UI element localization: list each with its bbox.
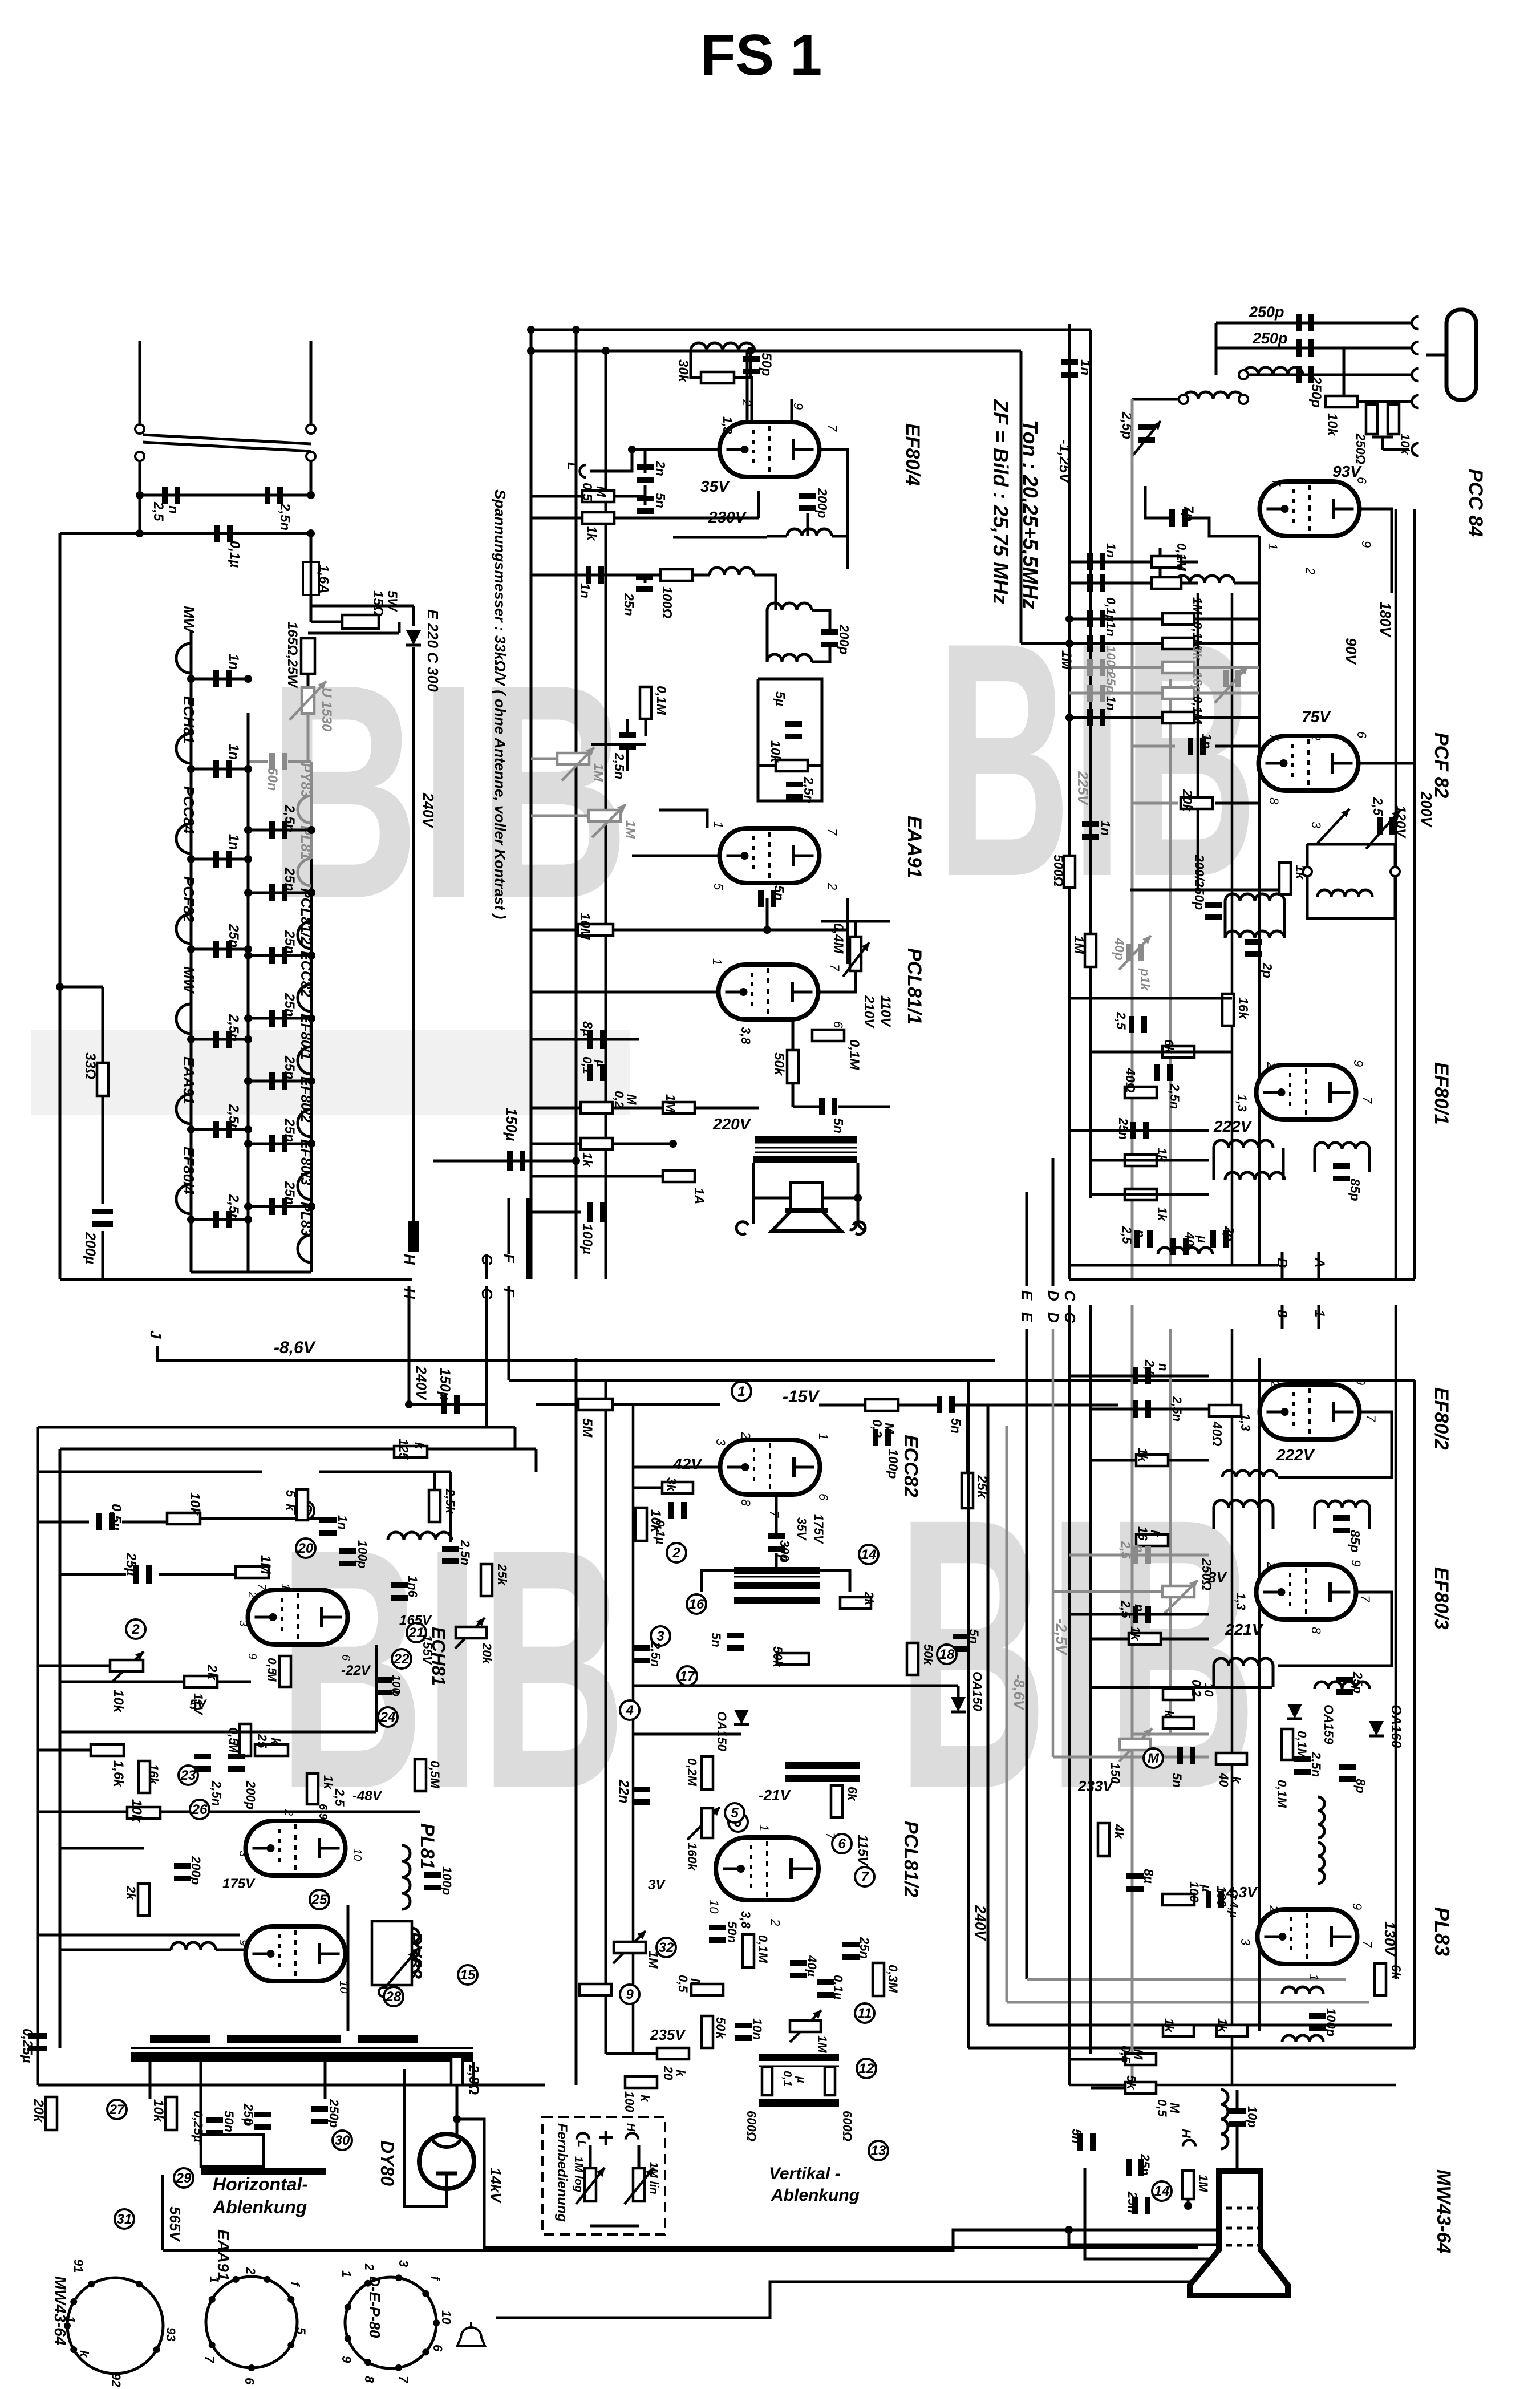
svg-text:250p: 250p <box>327 2099 341 2128</box>
wire <box>898 1404 941 1407</box>
svg-text:7: 7 <box>1360 1096 1375 1104</box>
wire <box>1130 889 1278 892</box>
capacitor ladder <box>1087 635 1093 652</box>
wire <box>531 929 578 932</box>
wire <box>1236 2090 1239 2111</box>
capacitor 8p <box>1339 1764 1356 1770</box>
svg-text:2,5n: 2,5n <box>277 503 293 531</box>
wire <box>591 743 646 746</box>
svg-text:-48V: -48V <box>352 1788 383 1804</box>
svg-text:M: M <box>265 1671 278 1682</box>
socket D-E-P-80 <box>345 2277 436 2368</box>
wire <box>1091 1686 1272 1689</box>
wire 1 lower <box>1318 1305 1320 1329</box>
capacitor 200/250p <box>1205 902 1222 908</box>
node 1 <box>732 1382 751 1401</box>
wire <box>531 495 582 498</box>
svg-text:25n: 25n <box>282 1055 297 1079</box>
svg-text:175V: 175V <box>222 1876 256 1892</box>
svg-text:-8,6V: -8,6V <box>274 1338 317 1357</box>
tube PCF82 <box>1259 736 1359 791</box>
pot arrow 0,4M <box>843 942 869 977</box>
svg-text:6: 6 <box>431 2345 445 2352</box>
node osc 2 <box>1391 867 1400 876</box>
wire <box>200 2062 202 2145</box>
trimmer arrow osc 2 <box>1318 809 1349 843</box>
capacitor 1n <box>1188 738 1193 755</box>
wire heater rail 2 <box>310 859 313 1272</box>
resistor 2k <box>840 1597 871 1609</box>
wire <box>60 1949 171 1951</box>
wire <box>102 987 104 1204</box>
junction <box>572 1157 580 1165</box>
svg-text:ECC82: ECC82 <box>900 1435 922 1497</box>
svg-text:25n: 25n <box>622 593 637 616</box>
svg-text:2,5: 2,5 <box>151 501 166 521</box>
svg-text:1n: 1n <box>226 744 241 760</box>
resistor 5M <box>578 1399 613 1410</box>
wire F upper stub <box>508 1198 510 1254</box>
svg-text:2: 2 <box>282 1809 295 1816</box>
wire plate feed <box>846 513 849 569</box>
resistor 1k <box>1125 1189 1157 1200</box>
wire <box>60 1847 144 1850</box>
wire <box>613 1403 720 1406</box>
svg-text:DY80: DY80 <box>377 2140 398 2186</box>
wire <box>38 1811 420 1813</box>
wire <box>398 622 401 633</box>
diode OA150 <box>734 1710 749 1724</box>
svg-text:0,1µ: 0,1µ <box>1104 597 1118 622</box>
wire <box>191 858 248 861</box>
socket EAA91 <box>206 2277 297 2368</box>
wire <box>319 1471 451 1473</box>
svg-text:200V: 200V <box>1418 791 1435 828</box>
svg-text:2: 2 <box>1265 1062 1279 1069</box>
svg-text:2: 2 <box>131 1622 140 1637</box>
svg-text:235V: 235V <box>650 2026 686 2043</box>
wire top rail <box>38 1426 515 1429</box>
resistor 1A barretter <box>663 1171 695 1182</box>
heater EAA91 <box>176 1094 191 1124</box>
coil booster <box>412 1928 419 1973</box>
svg-text:2,5n: 2,5n <box>282 804 297 832</box>
svg-text:0,5: 0,5 <box>1155 2099 1169 2117</box>
svg-text:230V: 230V <box>708 508 747 526</box>
svg-text:90V: 90V <box>1343 638 1360 666</box>
svg-text:Spannungsmesser : 33kΩ/V ( ohn: Spannungsmesser : 33kΩ/V ( ohne Antenne,… <box>492 489 509 919</box>
switch S1 link bar 2 <box>143 442 311 451</box>
svg-text:100µ: 100µ <box>579 1224 595 1254</box>
svg-text:4: 4 <box>625 1703 633 1718</box>
wire IF can side <box>1213 1148 1215 1180</box>
svg-text:1n: 1n <box>1104 622 1118 637</box>
svg-text:0,5µ: 0,5µ <box>108 1504 124 1530</box>
capacitor 250p <box>1296 339 1302 357</box>
svg-text:M: M <box>1131 2049 1145 2060</box>
resistor 1k <box>1125 1155 1157 1166</box>
diode OA160 <box>1369 1721 1384 1736</box>
resistor 0,1M <box>743 1934 754 1967</box>
wire ladder row <box>1069 642 1259 645</box>
wire bottom of top half <box>1069 1278 1415 1281</box>
wire <box>1215 323 1218 375</box>
trimmer 2,5p <box>1138 424 1155 430</box>
svg-text:PL81: PL81 <box>416 1823 438 1869</box>
socket pin <box>209 2342 216 2348</box>
capacitor 2,5n <box>194 1754 211 1759</box>
junction <box>244 889 252 897</box>
wire feeder 240V <box>967 1380 970 2048</box>
socket pin <box>395 2274 402 2281</box>
resistor 10k <box>1388 404 1399 434</box>
pot 1M log <box>585 2168 596 2201</box>
svg-text:16k: 16k <box>1236 997 1251 1020</box>
svg-text:14: 14 <box>861 1547 877 1562</box>
junction <box>187 1216 195 1224</box>
svg-text:9: 9 <box>1349 1560 1363 1566</box>
wire right col rail 2 <box>1089 1305 1092 2054</box>
svg-text:1n: 1n <box>226 834 241 850</box>
svg-text:PY83: PY83 <box>298 763 314 797</box>
wire <box>792 1084 795 1107</box>
wire <box>1368 1149 1371 1172</box>
svg-text:40Ω: 40Ω <box>1210 1421 1225 1447</box>
hor lin bar <box>201 2168 326 2175</box>
resistor 1k <box>307 1773 318 1804</box>
wire <box>38 1521 89 1524</box>
svg-text:120V: 120V <box>1393 805 1408 839</box>
capacitor 25n <box>1126 2159 1132 2176</box>
svg-text:2,5n: 2,5n <box>1309 1751 1323 1777</box>
resistor 250Ω <box>1366 404 1377 434</box>
svg-text:3: 3 <box>1238 1938 1253 1946</box>
heater PL83 <box>298 1235 311 1262</box>
heater EF80/4 <box>176 1184 191 1214</box>
svg-text:2: 2 <box>740 399 754 406</box>
wire <box>1359 763 1415 816</box>
svg-text:5M: 5M <box>579 1418 595 1438</box>
wire <box>1272 1666 1275 1687</box>
tube PY83 <box>246 1926 346 1981</box>
svg-text:22: 22 <box>394 1651 410 1667</box>
tube PCL81/1 <box>719 965 818 1019</box>
resistor 10M <box>578 924 613 936</box>
wire <box>140 494 311 497</box>
capacitor ladder <box>1087 709 1093 726</box>
wire <box>1091 1159 1209 1162</box>
svg-text:35V: 35V <box>795 1517 809 1541</box>
resistor 0,2M <box>702 1756 713 1789</box>
svg-text:PCC 84: PCC 84 <box>1465 469 1486 537</box>
svg-text:9: 9 <box>626 1987 634 2002</box>
wire gray <box>1132 745 1175 748</box>
svg-text:2,5: 2,5 <box>333 1788 347 1807</box>
svg-text:7: 7 <box>202 2356 217 2364</box>
node 23 <box>179 1766 198 1785</box>
wire gray <box>288 760 311 763</box>
svg-text:27: 27 <box>109 2102 125 2117</box>
socket pin <box>422 2348 429 2355</box>
speaker <box>791 1183 822 1209</box>
wire <box>988 2024 1392 2027</box>
svg-text:5V: 5V <box>189 1697 207 1712</box>
wire <box>509 1379 995 1382</box>
transformer core line <box>755 1152 857 1153</box>
resistor 6k <box>1375 1963 1386 1995</box>
node osc <box>1303 867 1312 876</box>
wire feeder gray -8,6V <box>1006 1426 1008 2002</box>
switch S1a contact 2 <box>135 452 144 461</box>
junction <box>307 889 315 897</box>
capacitor ladder <box>1087 610 1093 627</box>
svg-text:7: 7 <box>1360 1941 1375 1948</box>
resistor 40k <box>1216 1753 1247 1764</box>
resistor 2,5k <box>429 1490 440 1522</box>
svg-text:2k: 2k <box>204 1664 220 1681</box>
wire inner rail 3 <box>1197 593 1199 890</box>
wire osc box <box>1307 844 1395 918</box>
svg-text:15: 15 <box>460 1967 476 1983</box>
svg-text:8: 8 <box>739 1499 753 1507</box>
resistor 10k <box>1163 1717 1194 1728</box>
svg-text:5µ: 5µ <box>773 691 788 706</box>
wire <box>1187 2200 1190 2206</box>
wire <box>1021 642 1091 645</box>
svg-text:D: D <box>1045 1312 1062 1323</box>
wire <box>644 450 647 473</box>
capacitor 0,25µ <box>28 2033 47 2039</box>
svg-text:222V: 222V <box>1213 1117 1253 1135</box>
capacitor 1n <box>319 1517 337 1523</box>
trimmer 2,5p <box>1223 670 1229 687</box>
heater EF80/2 <box>298 1110 311 1137</box>
svg-text:1M: 1M <box>1072 936 1087 954</box>
wire H <box>408 1286 411 1323</box>
svg-text:6,9: 6,9 <box>317 1804 329 1820</box>
wire <box>767 929 848 932</box>
wire <box>614 495 645 498</box>
svg-text:PCF82: PCF82 <box>180 876 197 922</box>
pot 0,4M <box>850 937 861 971</box>
wire <box>531 1143 581 1145</box>
socket pin <box>345 2335 351 2342</box>
coil plate EF80/2 <box>1222 1471 1277 1477</box>
socket MW43-64 <box>67 2278 163 2374</box>
wire <box>1213 1666 1215 1687</box>
resistor 1M <box>663 1102 695 1113</box>
capacitor 1n <box>1087 553 1093 570</box>
wire <box>1215 802 1259 805</box>
node 20 <box>296 1538 315 1558</box>
pot 160k <box>702 1808 713 1838</box>
svg-text:5: 5 <box>294 2327 308 2335</box>
wire <box>633 1685 958 1687</box>
transformer core line <box>734 1576 820 1578</box>
resistor 50k <box>777 1653 809 1665</box>
booster winding box <box>372 1921 412 1985</box>
transformer core line <box>755 1147 857 1149</box>
resistor 1k <box>1163 2025 1194 2036</box>
svg-text:1M: 1M <box>623 820 638 839</box>
capacitor 2,5n <box>786 782 803 787</box>
wire feeder E <box>1026 1329 1028 1979</box>
junction <box>187 1125 195 1133</box>
svg-text:40Ω: 40Ω <box>1123 1067 1138 1093</box>
resistor 50k <box>907 1643 918 1675</box>
svg-text:9: 9 <box>791 403 805 410</box>
svg-text:100p: 100p <box>1324 2008 1338 2036</box>
coil cathode <box>1175 576 1234 583</box>
wire ladder row <box>1069 716 1259 719</box>
svg-text:M: M <box>1148 1751 1160 1766</box>
svg-text:2,5n: 2,5n <box>209 1780 224 1806</box>
capacitor 250p <box>1296 314 1302 331</box>
svg-text:50n: 50n <box>222 2111 236 2132</box>
svg-text:26: 26 <box>192 1802 208 1817</box>
switch S1 link bar <box>143 435 311 444</box>
wire <box>590 2225 639 2228</box>
wire <box>626 719 629 736</box>
node 25 <box>310 1890 329 1909</box>
rectifier E 220 C 300 <box>406 630 421 645</box>
svg-text:8: 8 <box>1267 797 1281 805</box>
svg-text:1: 1 <box>816 1433 830 1440</box>
wire <box>1091 1051 1232 1054</box>
svg-text:240V: 240V <box>413 1366 429 1401</box>
antenna terminal hook <box>1412 342 1419 354</box>
svg-text:10n: 10n <box>750 2018 764 2040</box>
svg-text:U 1530: U 1530 <box>319 687 334 732</box>
wire <box>793 1106 819 1108</box>
resistor 5k <box>1125 2082 1156 2094</box>
socket pin <box>70 2346 77 2353</box>
wire IF can side <box>1282 1148 1285 1180</box>
wire left rail <box>59 533 62 1279</box>
resistor 10k <box>165 2097 177 2130</box>
wire <box>691 351 701 378</box>
coil osc <box>1318 890 1372 897</box>
svg-text:3: 3 <box>714 1439 728 1446</box>
wire <box>613 1107 663 1110</box>
wire <box>590 450 632 471</box>
svg-text:k: k <box>714 2032 728 2040</box>
wire <box>632 855 720 857</box>
resistor 0,2M <box>1163 1689 1194 1700</box>
watermark BIB 1 <box>268 621 629 962</box>
wire inner rail <box>1231 593 1234 1265</box>
resistor 25k <box>481 1564 492 1596</box>
hor lin box <box>201 2135 264 2167</box>
svg-text:40: 40 <box>1182 1232 1197 1246</box>
svg-text:1n6: 1n6 <box>406 1576 420 1598</box>
svg-text:MW43-64: MW43-64 <box>1433 2169 1454 2253</box>
svg-text:200p: 200p <box>837 624 852 654</box>
resistor 0,1M <box>640 687 651 719</box>
svg-text:2,5: 2,5 <box>1120 1226 1134 1244</box>
wire <box>1091 1638 1129 1641</box>
svg-text:E: E <box>1019 1312 1036 1322</box>
svg-text:0,4M: 0,4M <box>830 923 846 954</box>
wire <box>536 1403 578 1406</box>
wire <box>248 1205 311 1208</box>
wire <box>1091 2087 1125 2090</box>
junction <box>244 765 252 773</box>
svg-text:6: 6 <box>1355 731 1369 739</box>
svg-text:MW43-64: MW43-64 <box>51 2276 69 2346</box>
wire <box>751 376 753 423</box>
VDR U1530 <box>302 687 314 714</box>
svg-text:1,6k: 1,6k <box>111 1760 126 1788</box>
resistor ladder <box>1162 613 1194 625</box>
svg-text:0,1: 0,1 <box>781 2071 793 2087</box>
junction CRT anode <box>1235 2182 1243 2190</box>
svg-text:16p: 16p <box>1190 671 1205 693</box>
svg-text:9: 9 <box>339 2356 354 2363</box>
svg-text:1: 1 <box>737 1384 745 1399</box>
pot 20k <box>456 1627 487 1638</box>
svg-text:5n: 5n <box>772 885 787 901</box>
antenna dipole <box>1446 310 1476 400</box>
node 28 <box>384 1987 403 2006</box>
wire <box>775 1553 778 1567</box>
capacitor 2,5n <box>1133 1606 1138 1623</box>
wire <box>531 574 710 577</box>
svg-text:250p: 250p <box>1252 330 1288 347</box>
wire <box>1168 1459 1209 1462</box>
svg-text:1M: 1M <box>1190 597 1205 615</box>
node 26 <box>190 1800 209 1819</box>
resistor ladder <box>1162 687 1194 699</box>
svg-text:200µ: 200µ <box>82 1232 98 1264</box>
resistor 125k <box>394 1446 427 1457</box>
wire <box>822 1197 858 1200</box>
VDR arrow U1530 <box>290 681 326 720</box>
heater PY83 <box>298 796 311 823</box>
svg-text:1M: 1M <box>1196 2175 1210 2192</box>
speaker hooks <box>736 1222 748 1234</box>
wire <box>1160 548 1175 583</box>
resistor 2,8Ω <box>451 2056 463 2085</box>
wire <box>1184 518 1259 536</box>
svg-text:2,5n: 2,5n <box>612 752 627 779</box>
svg-text:F: F <box>501 1288 518 1298</box>
capacitor 5n <box>1077 2133 1083 2151</box>
junction <box>244 1125 252 1133</box>
svg-text:10k: 10k <box>111 1690 126 1714</box>
svg-text:E: E <box>1019 1290 1036 1301</box>
wire H down <box>408 1323 411 1404</box>
tube DY80 <box>419 2134 474 2189</box>
wire <box>812 643 830 662</box>
capacitor 0,5µ <box>96 1513 102 1530</box>
svg-text:93: 93 <box>164 2327 178 2341</box>
junction <box>136 529 144 537</box>
wire F rail <box>605 1380 607 2054</box>
tube PL81 <box>246 1821 346 1876</box>
svg-text:10k: 10k <box>151 2099 166 2123</box>
svg-text:8µ: 8µ <box>579 1021 595 1036</box>
svg-text:5n: 5n <box>1069 2129 1084 2144</box>
svg-text:3k: 3k <box>664 1477 679 1492</box>
svg-text:p: p <box>390 1689 402 1696</box>
switch S1b contact <box>306 424 315 434</box>
svg-text:ZF = Bild : 25,75 MHz: ZF = Bild : 25,75 MHz <box>989 399 1012 604</box>
svg-text:7: 7 <box>1269 479 1283 487</box>
svg-text:1k: 1k <box>1136 1448 1150 1463</box>
wire <box>139 461 141 516</box>
wire gray <box>1007 2001 1369 2004</box>
